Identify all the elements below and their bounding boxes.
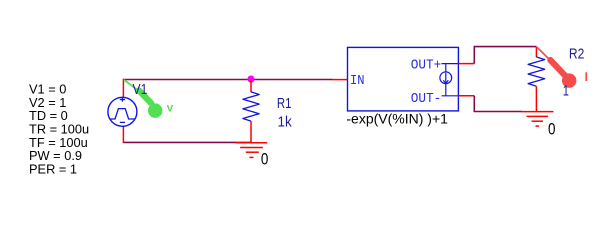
ABM block U1 (-exp(V(%IN))+1) [348,47,459,111]
pin: U1 OUT+ pin [458,63,474,65]
wire: top net from V1 to ABM IN pin [123,79,332,81]
pin: R2 bottom pin [535,86,537,111]
parameter text block for V1 (VPULSE values) [29,82,89,177]
svg-text:R1: R1 [277,95,292,112]
voltage source V1 (VPULSE) [108,79,137,143]
svg-text:V1: V1 [133,81,148,98]
pin: U1 OUT- pin [458,95,474,97]
V1 body circle [108,97,137,126]
U1 current source arrow [445,73,447,84]
U1 internal rail OUT- [442,95,459,97]
R1 zigzag body [243,92,259,121]
svg-text:PER = 1: PER = 1 [29,161,77,176]
V1 minus mark [120,121,125,123]
U1 current source circle [440,72,452,84]
label: probe letter I [585,72,587,81]
pin: R1 bottom pin [250,121,252,143]
svg-text:1: 1 [563,83,569,100]
pin: V1 top pin [122,79,124,98]
junction node dot at R1 top [247,76,254,83]
svg-text:OUT+: OUT+ [411,58,442,74]
ground symbol 0 (left, under R1) [236,143,268,158]
U1 internal current source branch [445,64,447,96]
wire: bottom net from V1 to ground [123,141,252,143]
pin: U1 IN pin [332,79,348,81]
U1 body rectangle [348,47,459,111]
pin: V1 bottom pin [122,126,124,143]
resistor R2 [528,47,545,112]
wire: OUT+ net to R2 (up and over) [474,47,536,64]
U1 internal rail OUT+ [442,63,459,65]
pin: R1 top pin [250,80,252,93]
svg-text:R2: R2 [569,45,584,62]
ground symbol 0 (right, under R2) [521,112,553,127]
V1 plus mark [121,97,123,101]
svg-text:1k: 1k [278,113,293,130]
svg-text:V: V [167,104,174,115]
wire: OUT- net to ground (down and over) [474,96,522,112]
R2 zigzag body [528,57,545,86]
voltage probe marker (green) on V1 node [124,80,140,92]
resistor R1 [243,80,259,144]
current probe marker (red) on R2 [537,47,552,61]
svg-text:0: 0 [548,120,556,138]
svg-text:-exp(V(%IN) )+1: -exp(V(%IN) )+1 [346,111,448,127]
svg-text:0: 0 [261,150,269,168]
pin: R2 top pin [535,47,537,58]
svg-text:OUT-: OUT- [411,91,442,107]
V1 pulse waveform glyph [110,109,135,119]
svg-text:IN: IN [350,73,365,89]
